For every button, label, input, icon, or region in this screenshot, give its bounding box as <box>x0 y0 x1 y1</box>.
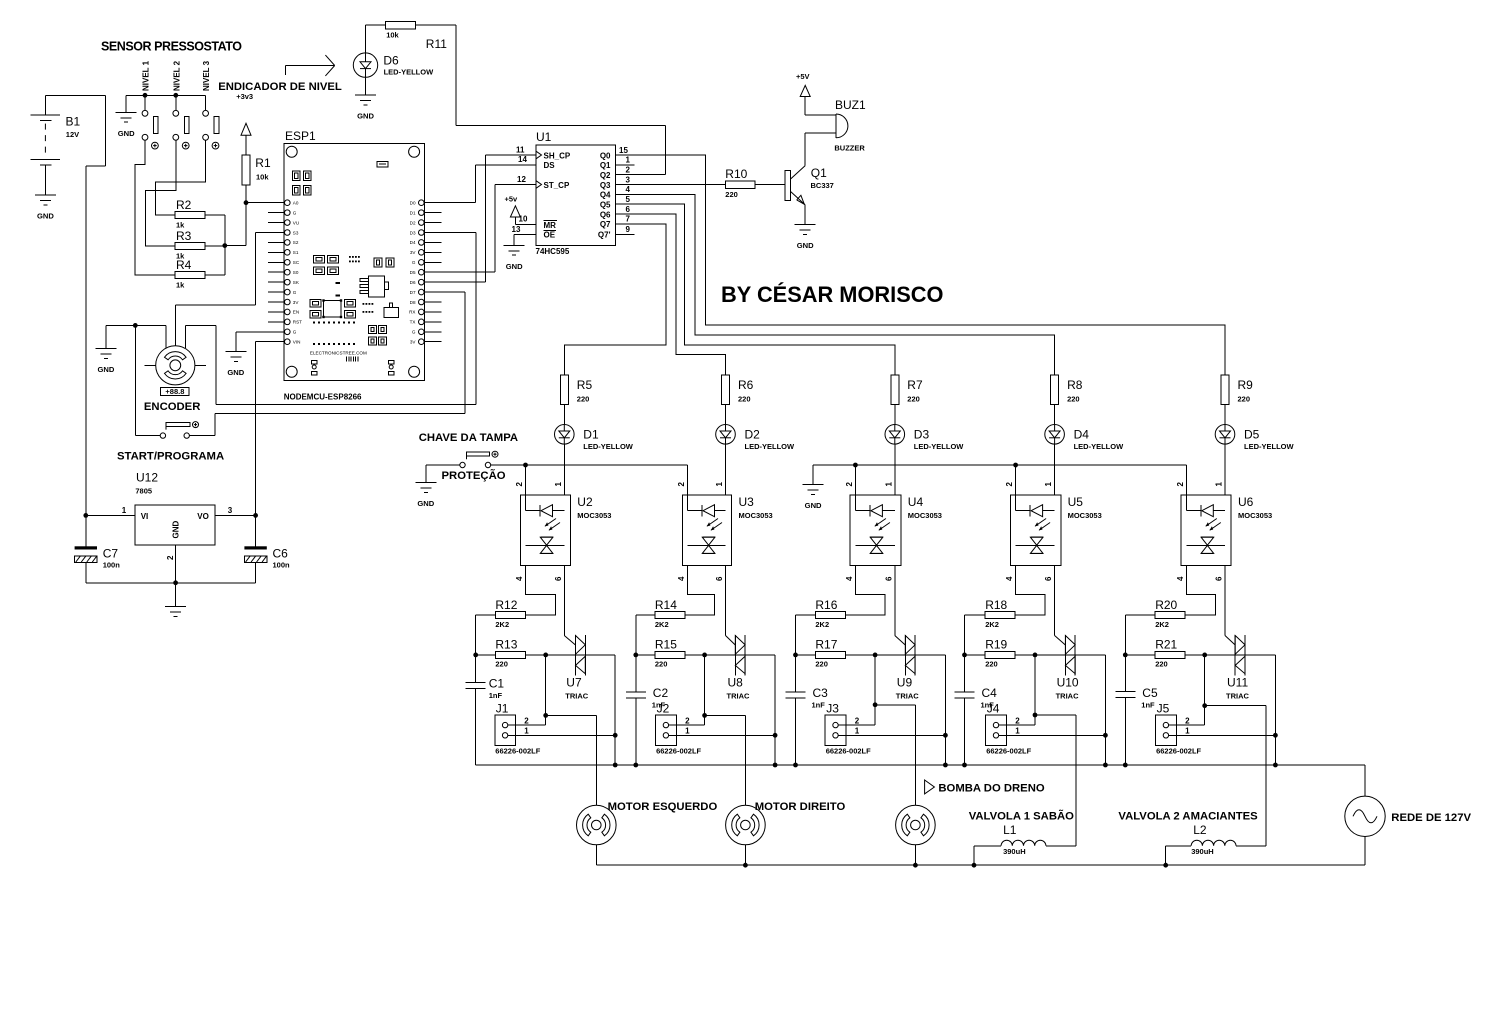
svg-text:A0: A0 <box>293 201 299 206</box>
svg-text:1: 1 <box>122 506 127 515</box>
svg-text:R9: R9 <box>1238 378 1254 392</box>
svg-text:NIVEL 2: NIVEL 2 <box>172 60 181 91</box>
wire J3 pin2 branch <box>838 655 915 725</box>
wire motor 2 feed <box>744 715 746 805</box>
svg-text:BC337: BC337 <box>811 181 834 190</box>
resistor R12 <box>495 598 525 629</box>
svg-text:G: G <box>412 260 416 265</box>
svg-text:MOC3053: MOC3053 <box>1238 511 1272 520</box>
svg-text:ESP1: ESP1 <box>285 129 316 143</box>
wire R20 left lead <box>1125 614 1155 616</box>
title CHAVE DA TAMPA <box>419 432 518 444</box>
svg-text:C1: C1 <box>489 677 505 691</box>
resistor R5 <box>560 375 592 405</box>
triac U10 <box>1056 635 1079 701</box>
svg-text:GND: GND <box>805 501 822 510</box>
arrow ENDICADOR DE NIVEL <box>218 55 342 93</box>
wire U3 pin6 to triac gate <box>726 566 736 645</box>
wire protection rail channels 1-2 <box>491 463 688 496</box>
svg-text:J1: J1 <box>496 702 509 716</box>
svg-text:U3: U3 <box>739 495 755 509</box>
wire U6 pin4 to R20 <box>1185 566 1215 616</box>
svg-text:1: 1 <box>1015 727 1020 736</box>
motor MOTOR ESQUERDO <box>577 801 718 845</box>
svg-text:Q7': Q7' <box>598 231 611 240</box>
wire U5 pin4 to R18 <box>1015 566 1045 616</box>
wire valve 2 feed <box>1265 706 1267 846</box>
wire U2 pin4 to R12 <box>525 566 555 616</box>
wire U2 pin6 to triac gate <box>564 566 575 645</box>
svg-text:LED-YELLOW: LED-YELLOW <box>1244 442 1294 451</box>
svg-text:TRIAC: TRIAC <box>1226 692 1249 701</box>
svg-text:R2: R2 <box>176 198 192 212</box>
wire ground rail channels 3-5 <box>813 463 1186 496</box>
label VALVOLA 1 SABAO <box>969 810 1074 823</box>
svg-text:GND: GND <box>417 499 434 508</box>
wire switch to ground <box>426 465 460 483</box>
svg-text:1: 1 <box>715 482 724 487</box>
svg-text:G: G <box>293 290 297 295</box>
svg-text:1k: 1k <box>176 281 185 290</box>
capacitor C1 <box>466 677 505 701</box>
svg-text:U4: U4 <box>908 495 924 509</box>
wire U1 OE to ground <box>514 234 536 245</box>
svg-text:EN: EN <box>293 310 299 315</box>
svg-text:1: 1 <box>855 727 860 736</box>
wire motor 3 return <box>913 845 918 868</box>
ground (ESP G) <box>225 352 246 378</box>
svg-text:R11: R11 <box>426 37 447 51</box>
wire U5 pin6 to triac gate <box>1055 566 1066 645</box>
regulator U12 7805 <box>83 471 258 583</box>
wire NIVEL2 to R3 <box>146 140 176 246</box>
wire NIVEL1 to R4 <box>135 140 175 275</box>
svg-text:SH_CP: SH_CP <box>544 151 571 160</box>
svg-text:S3: S3 <box>293 230 299 235</box>
svg-text:2K2: 2K2 <box>985 620 999 629</box>
LED D3 <box>885 425 964 451</box>
svg-text:D2: D2 <box>410 220 416 225</box>
optocoupler U4 MOC3053 <box>845 465 942 581</box>
svg-text:GND: GND <box>37 212 54 221</box>
resistor R2 <box>175 198 205 230</box>
svg-text:R17: R17 <box>815 638 837 652</box>
power +3V3 <box>236 92 253 155</box>
wire D5 to optocoupler pin 1 <box>1224 444 1226 495</box>
wire ESP VIN to 7805 output <box>256 342 285 516</box>
svg-text:74HC595: 74HC595 <box>536 247 570 256</box>
svg-text:220: 220 <box>985 660 998 669</box>
svg-text:J3: J3 <box>826 702 839 716</box>
svg-text:GND: GND <box>357 112 374 121</box>
svg-text:MOC3053: MOC3053 <box>1068 511 1102 520</box>
wire D3 to optocoupler pin 1 <box>894 444 896 495</box>
ac source REDE DE 127V <box>1345 796 1472 836</box>
wire left rail with C5 <box>1123 615 1155 765</box>
svg-text:Q6: Q6 <box>600 210 611 219</box>
resistor R17 <box>815 638 845 669</box>
wire motor 1 feed <box>595 715 597 805</box>
svg-text:L1: L1 <box>1003 823 1017 837</box>
svg-text:TRIAC: TRIAC <box>896 692 919 701</box>
svg-text:C7: C7 <box>103 547 119 561</box>
svg-text:G: G <box>293 210 297 215</box>
wire J3 pin1 <box>838 734 945 736</box>
svg-text:GND: GND <box>118 129 135 138</box>
svg-text:R7: R7 <box>907 378 923 392</box>
wire D1 to optocoupler pin 1 <box>563 444 565 495</box>
svg-text:2: 2 <box>1015 716 1020 725</box>
svg-text:390uH: 390uH <box>1191 847 1214 856</box>
wire U4 pin4 to R16 <box>845 566 885 616</box>
wire sensor ground rail <box>126 93 205 113</box>
svg-text:D7: D7 <box>410 290 416 295</box>
svg-text:2: 2 <box>1176 482 1185 487</box>
svg-text:1: 1 <box>524 727 529 736</box>
LED D6 <box>353 53 434 77</box>
svg-text:Q2: Q2 <box>600 171 611 180</box>
svg-text:R13: R13 <box>495 638 517 652</box>
resistor R11 <box>385 21 447 51</box>
svg-text:R15: R15 <box>655 638 677 652</box>
svg-text:U10: U10 <box>1057 676 1079 690</box>
svg-text:U7: U7 <box>566 676 582 690</box>
svg-text:TRIAC: TRIAC <box>1056 692 1079 701</box>
inductor L1 <box>972 823 1076 867</box>
resistor R14 <box>655 598 685 629</box>
svg-text:U9: U9 <box>897 676 913 690</box>
wire U1 Q4 to R8 <box>616 194 1055 375</box>
svg-text:4: 4 <box>626 185 631 194</box>
resistor R19 <box>985 638 1015 669</box>
triac U8 <box>727 635 750 701</box>
ground (switch) <box>415 483 436 509</box>
svg-text:D1: D1 <box>410 210 416 215</box>
svg-text:1: 1 <box>884 482 893 487</box>
resistor R20 <box>1155 598 1185 629</box>
wire J2 pin1 <box>669 734 776 736</box>
ground (encoder) <box>95 349 116 375</box>
resistor R10 <box>725 167 755 199</box>
svg-text:2K2: 2K2 <box>495 620 509 629</box>
wire left rail with C2 <box>633 615 655 765</box>
svg-text:220: 220 <box>1238 395 1251 404</box>
wire neutral bus <box>476 763 1365 797</box>
svg-text:220: 220 <box>725 190 738 199</box>
svg-text:NODEMCU-ESP8266: NODEMCU-ESP8266 <box>284 392 362 401</box>
svg-text:TRIAC: TRIAC <box>727 692 750 701</box>
push-button START/PROGRAMA <box>117 422 224 463</box>
svg-text:ENCODER: ENCODER <box>144 401 201 413</box>
svg-text:C6: C6 <box>273 547 289 561</box>
wire D6 to ground <box>365 77 367 95</box>
svg-text:LED-YELLOW: LED-YELLOW <box>745 442 795 451</box>
svg-text:R10: R10 <box>725 167 747 181</box>
svg-text:B1: B1 <box>66 115 81 129</box>
battery B1 <box>30 95 80 195</box>
resistor R6 <box>722 375 754 405</box>
wire left rail with C3 <box>793 615 815 765</box>
title BY CESAR MORISCO <box>721 282 943 307</box>
ground (D6) <box>355 95 376 121</box>
svg-text:Q4: Q4 <box>600 191 611 200</box>
svg-text:R16: R16 <box>815 598 837 612</box>
svg-text:R6: R6 <box>738 378 754 392</box>
wire R13 output <box>525 653 617 768</box>
buzzer BUZ1 <box>834 98 866 153</box>
inductor L2 <box>1163 823 1266 867</box>
capacitor C2 <box>626 686 669 710</box>
svg-text:DS: DS <box>544 161 556 170</box>
wire D4 to optocoupler pin 1 <box>1054 444 1056 495</box>
svg-text:6: 6 <box>884 576 893 581</box>
svg-text:LED-YELLOW: LED-YELLOW <box>914 442 964 451</box>
svg-text:1: 1 <box>1185 727 1190 736</box>
svg-text:L2: L2 <box>1193 823 1207 837</box>
svg-text:3V: 3V <box>410 340 417 345</box>
svg-text:R5: R5 <box>577 378 593 392</box>
triac U9 <box>896 635 919 701</box>
svg-text:2: 2 <box>515 482 524 487</box>
ground (battery) <box>35 195 56 221</box>
wire J4 pin2 branch <box>999 655 1076 725</box>
resistor R21 <box>1155 638 1185 669</box>
svg-text:Q7: Q7 <box>600 220 611 229</box>
wire R19 output <box>1015 653 1108 768</box>
svg-text:MOTOR ESQUERDO: MOTOR ESQUERDO <box>608 801 718 813</box>
svg-text:6: 6 <box>715 576 724 581</box>
wire encoder common to ground <box>106 323 166 349</box>
wire NIVEL3 to R2 <box>155 140 205 215</box>
wire R15 output <box>685 653 778 768</box>
svg-text:220: 220 <box>1155 660 1168 669</box>
push-button NIVEL 2 <box>172 60 189 149</box>
wire R8 to D4 <box>1054 405 1056 425</box>
svg-text:OE: OE <box>544 231 556 240</box>
svg-text:9: 9 <box>626 225 631 234</box>
svg-text:D6: D6 <box>410 280 416 285</box>
svg-text:2K2: 2K2 <box>655 620 669 629</box>
svg-text:2: 2 <box>166 555 175 560</box>
wire R21 output <box>1185 653 1278 768</box>
push-button NIVEL 3 <box>202 60 219 149</box>
wire R11 to U1 Q2 <box>416 25 666 175</box>
svg-text:SC: SC <box>293 260 300 265</box>
svg-text:GND: GND <box>506 262 523 271</box>
svg-text:Q1: Q1 <box>600 161 611 170</box>
svg-text:VU: VU <box>293 220 299 225</box>
resistor R8 <box>1051 375 1083 405</box>
svg-text:PROTEÇÃO: PROTEÇÃO <box>442 469 506 482</box>
svg-text:J5: J5 <box>1157 702 1170 716</box>
wire ESP D6 to U1 SH_CP <box>424 155 536 282</box>
svg-text:R8: R8 <box>1067 378 1083 392</box>
wire ESP D0 to U1 DS <box>424 165 536 203</box>
module ESP1 NodeMCU-ESP8266 <box>268 129 442 401</box>
svg-text:3V: 3V <box>410 250 417 255</box>
svg-text:VI: VI <box>141 512 149 521</box>
svg-text:NIVEL 1: NIVEL 1 <box>142 60 151 91</box>
svg-text:RX: RX <box>409 310 415 315</box>
svg-text:4: 4 <box>845 576 854 581</box>
wire motor 1 return <box>595 845 597 865</box>
svg-text:VALVOLA 1 SABÃO: VALVOLA 1 SABÃO <box>969 810 1074 823</box>
wire R10 to Q1 base <box>755 184 785 186</box>
svg-text:START/PROGRAMA: START/PROGRAMA <box>117 451 224 463</box>
svg-text:R19: R19 <box>985 638 1007 652</box>
svg-text:BOMBA DO DRENO: BOMBA DO DRENO <box>938 782 1044 794</box>
ground (U12) <box>165 607 186 617</box>
wire R5 to D1 <box>563 405 565 425</box>
wire R14 left lead <box>636 614 655 616</box>
svg-text:U8: U8 <box>728 676 744 690</box>
wire U4 pin6 to triac gate <box>895 566 906 645</box>
svg-text:BUZ1: BUZ1 <box>835 98 866 112</box>
triac U7 <box>565 635 588 701</box>
svg-text:3: 3 <box>228 506 233 515</box>
wire U12 ground bus <box>86 580 256 606</box>
svg-text:1: 1 <box>626 156 631 165</box>
connector J1 <box>495 702 541 756</box>
LED D2 <box>716 425 795 451</box>
resistor R18 <box>985 598 1015 629</box>
svg-text:GND: GND <box>797 241 814 250</box>
svg-text:J2: J2 <box>657 702 670 716</box>
svg-text:ELECTRONICSTREE.COM: ELECTRONICSTREE.COM <box>310 351 367 356</box>
svg-text:MOC3053: MOC3053 <box>739 511 773 520</box>
transistor Q1 BC337 <box>785 166 834 205</box>
wire R18 left lead <box>965 614 986 616</box>
svg-text:R3: R3 <box>176 229 192 243</box>
wire valve 1 feed <box>1075 715 1077 846</box>
encoder <box>144 346 206 413</box>
optocoupler U3 MOC3053 <box>677 465 773 581</box>
svg-text:R18: R18 <box>985 598 1007 612</box>
wire R17 output <box>845 653 947 768</box>
svg-text:U5: U5 <box>1068 495 1084 509</box>
svg-text:13: 13 <box>512 225 521 234</box>
wire U1 Q3 to R10 <box>616 184 726 186</box>
svg-text:D0: D0 <box>410 201 416 206</box>
wire U1 Q0 to R9 <box>616 155 1226 375</box>
wire left rail with C4 <box>962 615 985 765</box>
svg-text:R21: R21 <box>1155 638 1177 652</box>
wire encoder terminal A <box>165 325 167 348</box>
svg-text:2: 2 <box>685 716 690 725</box>
svg-text:1nF: 1nF <box>489 691 503 700</box>
svg-text:12: 12 <box>517 175 526 184</box>
wire battery positive rail <box>45 95 105 515</box>
svg-text:2: 2 <box>1185 716 1190 725</box>
svg-text:D6: D6 <box>383 53 399 67</box>
svg-text:6: 6 <box>1215 576 1224 581</box>
LED D5 <box>1215 425 1294 451</box>
svg-text:SENSOR PRESSOSTATO: SENSOR PRESSOSTATO <box>101 40 242 54</box>
svg-text:R14: R14 <box>655 598 677 612</box>
svg-text:Q3: Q3 <box>600 181 611 190</box>
svg-text:S1: S1 <box>293 250 299 255</box>
svg-text:220: 220 <box>738 395 751 404</box>
svg-text:66226-002LF: 66226-002LF <box>986 746 1031 755</box>
svg-text:MR: MR <box>544 221 557 230</box>
svg-text:4: 4 <box>1005 576 1014 581</box>
wire start button left <box>135 325 160 435</box>
ground (sensor) <box>116 112 137 137</box>
svg-text:C5: C5 <box>1142 686 1158 700</box>
ground (U1 OE) <box>504 245 525 271</box>
capacitor C6 <box>244 515 290 582</box>
svg-text:+5v: +5v <box>505 195 519 204</box>
svg-text:U2: U2 <box>577 495 593 509</box>
svg-text:VO: VO <box>197 512 209 521</box>
wire return bus <box>596 837 1365 866</box>
svg-text:GND: GND <box>227 368 244 377</box>
capacitor C3 <box>786 686 829 710</box>
wire J1 pin1 <box>508 734 615 736</box>
svg-text:2: 2 <box>845 482 854 487</box>
svg-text:VIN: VIN <box>293 340 301 345</box>
svg-text:D8: D8 <box>410 300 416 305</box>
svg-text:2: 2 <box>524 716 529 725</box>
svg-text:S2: S2 <box>293 240 299 245</box>
connector J4 <box>986 702 1032 756</box>
resistor R1 <box>242 155 271 203</box>
wire J2 pin2 branch <box>669 655 746 725</box>
svg-text:ENDICADOR DE NIVEL: ENDICADOR DE NIVEL <box>218 81 342 93</box>
svg-text:15: 15 <box>619 146 628 155</box>
svg-text:BY CÉSAR MORISCO: BY CÉSAR MORISCO <box>721 282 943 307</box>
resistor R16 <box>815 598 845 629</box>
wire R11 to D6 <box>366 25 386 53</box>
svg-text:C4: C4 <box>982 686 998 700</box>
svg-text:Q5: Q5 <box>600 201 611 210</box>
wire U1 Q6 to R6 <box>616 214 726 375</box>
wire J5 pin1 <box>1169 734 1276 736</box>
svg-text:1: 1 <box>554 482 563 487</box>
wire R9 to D5 <box>1224 405 1226 425</box>
motor MOTOR DIREITO <box>726 801 846 845</box>
svg-text:1: 1 <box>685 727 690 736</box>
LED D1 <box>555 425 634 451</box>
wire motor 2 return <box>743 845 748 868</box>
svg-text:2: 2 <box>626 166 631 175</box>
resistor R9 <box>1221 375 1253 405</box>
svg-text:C3: C3 <box>813 686 829 700</box>
resistor R15 <box>655 638 685 669</box>
capacitor C7 <box>75 515 121 582</box>
resistor R3 <box>175 229 205 261</box>
svg-text:1: 1 <box>1044 482 1053 487</box>
svg-text:SK: SK <box>293 280 300 285</box>
svg-text:390uH: 390uH <box>1003 847 1026 856</box>
svg-text:220: 220 <box>655 660 668 669</box>
svg-text:66226-002LF: 66226-002LF <box>826 746 871 755</box>
wire ESP G to ground <box>236 332 285 352</box>
svg-text:CHAVE DA TAMPA: CHAVE DA TAMPA <box>419 432 518 444</box>
title SENSOR PRESSOSTATO <box>101 40 242 54</box>
svg-text:D5: D5 <box>1244 428 1260 442</box>
svg-text:14: 14 <box>518 155 527 164</box>
svg-text:TX: TX <box>410 320 416 325</box>
svg-text:Q1: Q1 <box>811 166 827 180</box>
wire U1 Q7 to R5 <box>564 224 666 375</box>
svg-text:U11: U11 <box>1227 676 1248 690</box>
svg-text:+5V: +5V <box>796 72 810 81</box>
svg-text:LED-YELLOW: LED-YELLOW <box>384 68 434 77</box>
svg-text:4: 4 <box>1176 576 1185 581</box>
wire R6 to D2 <box>725 405 727 425</box>
switch PROTECAO <box>442 451 506 482</box>
